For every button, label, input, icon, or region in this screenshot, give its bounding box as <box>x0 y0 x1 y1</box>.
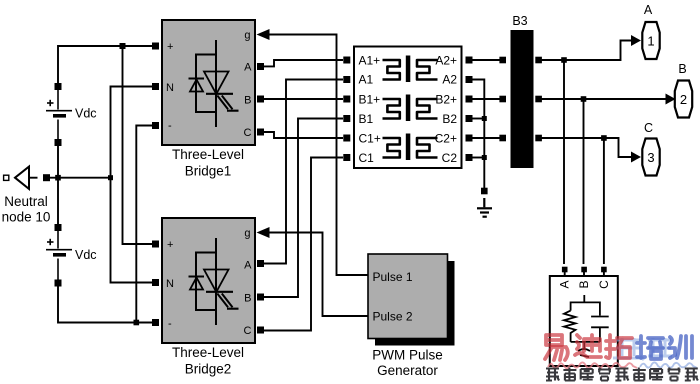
small marks below <box>578 349 590 357</box>
svg-text:N: N <box>166 82 174 94</box>
bridge1 port squares <box>152 43 264 136</box>
svg-text:Vdc: Vdc <box>75 107 97 121</box>
svg-text:Three-Level: Three-Level <box>172 345 244 360</box>
three-level bridge1 block <box>162 20 255 145</box>
wire bridge1 A to A1+ <box>264 60 343 66</box>
transformer B windings <box>383 99 438 119</box>
B3 bus bar block <box>499 14 541 168</box>
svg-text:B1: B1 <box>359 112 374 126</box>
wire Vdc1 to bridge1 plus <box>58 46 152 83</box>
svg-text:B: B <box>244 293 251 305</box>
watermark red char yi <box>546 335 562 345</box>
wire bridge1 C to C1+ <box>264 132 343 138</box>
svg-text:3: 3 <box>647 150 654 165</box>
wire B3 to outport A <box>541 41 631 61</box>
wire B3 to outport B <box>541 98 666 100</box>
svg-text:-: - <box>168 318 172 330</box>
svg-text:Bridge1: Bridge1 <box>185 164 232 179</box>
svg-text:B2+: B2+ <box>435 93 457 107</box>
svg-text:Vdc: Vdc <box>75 248 97 262</box>
svg-text:Pulse 2: Pulse 2 <box>373 310 413 324</box>
svg-text:-: - <box>168 120 172 132</box>
wire phase C down to load <box>603 138 605 264</box>
bridge2 interior diode and thyristor <box>189 238 239 325</box>
svg-text:C2+: C2+ <box>435 132 457 146</box>
transformer port squares <box>343 57 472 162</box>
node B2 junction <box>482 116 487 121</box>
node DC+ junction <box>120 43 126 49</box>
watermark light echo <box>613 338 672 360</box>
svg-text:B: B <box>577 280 591 288</box>
bridge1 interior diode and thyristor <box>189 40 239 127</box>
wire A1 to bridge2 A <box>264 80 343 264</box>
wire bridge1 N to bridge2 N <box>111 87 153 283</box>
WIRES right of B3 <box>541 41 666 265</box>
node N-bus junction <box>108 175 113 180</box>
svg-text:+: + <box>167 239 173 251</box>
wire neutral to N bus <box>50 177 111 179</box>
outport B <box>666 62 693 118</box>
svg-text:g: g <box>244 30 250 42</box>
svg-text:A2: A2 <box>442 73 457 87</box>
three-phase load block <box>550 267 618 366</box>
wire C1 to bridge2 C <box>264 158 343 331</box>
svg-text:PWM Pulse: PWM Pulse <box>372 348 443 363</box>
wire bridge1 B to B1+ <box>264 98 343 100</box>
svg-text:C1+: C1+ <box>359 132 381 146</box>
svg-text:B2: B2 <box>442 112 457 126</box>
wire g2 from PWM pulse2 <box>268 233 368 317</box>
watermark red char di <box>584 335 600 351</box>
WIRES-LEFT <box>50 46 152 323</box>
watermark blue char xun <box>669 337 675 358</box>
WIRES-MIDDLE <box>264 35 368 331</box>
wire B3 to outport C <box>541 138 631 157</box>
svg-text:Generator: Generator <box>377 363 438 378</box>
svg-text:C: C <box>597 280 611 289</box>
bridge2 port squares <box>152 241 264 334</box>
svg-text:1: 1 <box>647 34 654 49</box>
wire g1 from PWM pulse1 <box>268 35 368 276</box>
three-level bridge2 block <box>162 218 255 343</box>
svg-text:A: A <box>244 62 252 74</box>
svg-text:node 10: node 10 <box>2 210 51 225</box>
svg-text:A: A <box>557 280 571 288</box>
WIRES right of transformer <box>473 60 500 188</box>
svg-text:B: B <box>678 62 686 76</box>
svg-text:C: C <box>244 325 252 337</box>
svg-text:A1: A1 <box>359 73 374 87</box>
svg-text:A: A <box>244 260 252 272</box>
watermark tagline <box>546 368 698 381</box>
transformer B core <box>406 95 411 122</box>
wire bridge1 minus down <box>136 126 152 323</box>
svg-text:B1+: B1+ <box>359 93 381 107</box>
watermark red char tuo <box>606 335 615 358</box>
svg-text:2: 2 <box>680 92 687 107</box>
battery Vdc2 <box>46 224 97 287</box>
svg-text:Bridge2: Bridge2 <box>185 362 232 377</box>
transformer block B1 <box>354 47 462 169</box>
svg-text:g: g <box>244 228 250 240</box>
svg-text:B3: B3 <box>512 14 527 28</box>
load RLC icon <box>564 295 609 357</box>
svg-text:N: N <box>166 278 174 290</box>
watermark blue char pei <box>637 336 645 358</box>
wire B1 to bridge2 B <box>264 119 343 298</box>
svg-text:Pulse 1: Pulse 1 <box>373 270 413 284</box>
wire phase B down to load <box>583 99 585 264</box>
node phase B junction <box>581 96 587 102</box>
node DC- junction <box>134 320 140 326</box>
wire phase A down to load <box>563 60 565 264</box>
svg-text:A2+: A2+ <box>435 54 457 68</box>
ground symbol <box>477 188 492 217</box>
resistor zigzag <box>564 311 576 342</box>
PWM pulse generator block <box>368 254 455 346</box>
transformer A windings <box>383 60 438 80</box>
arrow into g1 <box>257 29 270 40</box>
outport A <box>631 3 660 59</box>
svg-text:A: A <box>644 3 653 17</box>
svg-text:+: + <box>167 41 173 53</box>
transformer C core <box>406 134 411 161</box>
wire A2+ to B3 <box>473 59 500 61</box>
wire DC bus plus to bridge2 plus <box>123 46 153 244</box>
node phase C junction <box>601 135 607 141</box>
svg-text:C2: C2 <box>442 151 458 165</box>
neutral node 10 connection port <box>2 167 51 225</box>
wire C2+ to B3 <box>473 137 500 139</box>
watermark script row <box>548 362 697 369</box>
wire B2+ to B3 <box>473 98 500 100</box>
wire battery1 bottom to battery2 top <box>57 146 59 224</box>
transformer C windings <box>383 138 438 158</box>
svg-text:C1: C1 <box>359 151 375 165</box>
battery Vdc1 <box>46 83 97 146</box>
svg-text:C: C <box>644 121 653 135</box>
arrow into g2 <box>257 227 270 238</box>
wire battery2 bottom to bridge2 minus <box>58 287 152 323</box>
svg-text:A1+: A1+ <box>359 54 381 68</box>
svg-text:Three-Level: Three-Level <box>172 147 244 162</box>
svg-text:B: B <box>244 95 251 107</box>
junction dots left <box>55 43 139 325</box>
transformer A core <box>406 56 411 83</box>
node C2 junction <box>482 155 487 160</box>
capacitor <box>591 316 609 318</box>
svg-text:C: C <box>244 127 252 139</box>
wire A2/B2/C2 common to ground <box>473 80 485 189</box>
node phase A junction <box>561 57 567 63</box>
svg-text:Neutral: Neutral <box>4 194 48 209</box>
node neutral junction <box>55 175 61 181</box>
outport C <box>631 121 660 176</box>
